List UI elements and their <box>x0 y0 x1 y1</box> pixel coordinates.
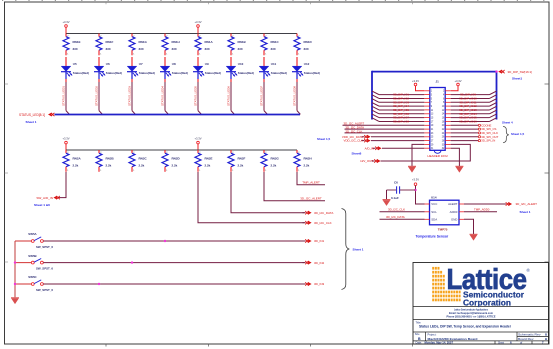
wire 3D_SPI_CLK (J1) <box>451 132 478 134</box>
power +3.3V P6 (J1 pin2) <box>454 79 461 86</box>
bus STATUS_LED[8:1] <box>55 114 301 116</box>
junction bus corner <box>495 70 497 72</box>
LED U11 Status(Red) <box>259 57 287 82</box>
wire switch common rail <box>14 241 16 297</box>
svg-text:SW5A: SW5A <box>28 232 37 236</box>
svg-text:U12: U12 <box>304 62 310 66</box>
svg-text:Sheet 1 &6: Sheet 1 &6 <box>34 203 50 207</box>
svg-text:Temperature Sensor: Temperature Sensor <box>416 235 449 239</box>
wire LED5 cathode down <box>197 82 199 111</box>
svg-text:GND: GND <box>451 217 457 221</box>
wire +3.3V to U14 VCC <box>416 186 425 204</box>
brace SPI group <box>503 126 509 143</box>
svg-text:U6: U6 <box>106 62 110 66</box>
svg-text:3D_I2C_ALERT: 3D_I2C_ALERT <box>516 202 538 206</box>
resistor RN2F 2.2k <box>228 150 246 172</box>
svg-text:SCL: SCL <box>431 210 437 214</box>
svg-text:+3.3V: +3.3V <box>454 79 461 83</box>
svg-text:2.2k: 2.2k <box>205 163 211 167</box>
wire 3D_DIP_IO16 (J1 pin 18) <box>451 120 490 122</box>
capacitor C6 0.1uF <box>387 181 416 200</box>
svg-text:3D_I2C_DATA: 3D_I2C_DATA <box>386 215 405 219</box>
svg-text:RN1D: RN1D <box>304 40 313 44</box>
power +3.3V P7 (U14) <box>412 178 419 186</box>
pin stubs J1 <box>424 91 450 151</box>
bus entry 3D_DIP_IO8 <box>372 118 379 122</box>
svg-text:RN2H: RN2H <box>304 157 312 161</box>
svg-text:+3.3V: +3.3V <box>194 136 201 140</box>
svg-text:SW_SPST_6: SW_SPST_6 <box>36 245 53 249</box>
wire +3.3V P2 to rail <box>197 27 199 33</box>
wire 3D_SPI_OUT (J1) <box>451 136 478 138</box>
ground (C6) <box>383 200 391 206</box>
bus 3D_DIP_SW right vertical <box>496 71 498 120</box>
bus entry 3D_DIP_IO10 <box>490 95 497 99</box>
wire LED8 cathode down <box>296 82 298 111</box>
svg-text:Status(Red): Status(Red) <box>139 71 155 75</box>
wire LED2 cathode down <box>98 82 100 111</box>
wire 3D_DIP_IO1 (J1 pin 3) <box>379 94 424 96</box>
title block date row <box>416 341 545 345</box>
wire switch SW5C to port 3D_IN3 <box>43 283 304 285</box>
wire U14 GND to ground <box>464 219 474 234</box>
svg-text:TMP_ADD0: TMP_ADD0 <box>474 208 490 212</box>
no-connect CDONE <box>478 124 480 126</box>
power +3.3V P5 (J1 pin1) <box>412 79 419 86</box>
wire C6 to ground <box>386 190 388 199</box>
svg-text:RN2F: RN2F <box>238 157 246 161</box>
bus entry 3D_DIP_IO9 <box>490 91 497 95</box>
svg-text:TMP75: TMP75 <box>438 228 448 232</box>
bus entry 3D_DIP_IO7 <box>372 114 379 118</box>
svg-text:330: 330 <box>205 47 210 51</box>
svg-text:STATUS_LED7: STATUS_LED7 <box>259 86 263 106</box>
svg-text:B: B <box>545 333 547 337</box>
svg-text:Sheet 1,5: Sheet 1,5 <box>317 137 331 141</box>
wire +3.3V rail group1 <box>66 33 297 35</box>
bus entry LED4 <box>165 111 168 115</box>
svg-text:RN1H: RN1H <box>172 40 180 44</box>
title block title row <box>416 320 512 328</box>
svg-text:RN2E: RN2E <box>205 157 213 161</box>
svg-text:U14: U14 <box>431 195 437 199</box>
bus entry 3D_DIP_IO4 <box>372 103 379 107</box>
svg-text:3D_I2C_DATA: 3D_I2C_DATA <box>314 211 333 215</box>
svg-text:Status(Red): Status(Red) <box>271 71 287 75</box>
svg-text:Sheet 1: Sheet 1 <box>353 247 364 251</box>
LED U9 Status(Red) <box>193 57 221 82</box>
wire 3D_DIP_IO2 (J1 pin 5) <box>379 97 424 99</box>
svg-text:3D_SPI_IN: 3D_SPI_IN <box>481 139 495 143</box>
svg-text:VDD_I2C_CLK: VDD_I2C_CLK <box>344 139 364 143</box>
LED U7 Status(Red) <box>127 57 155 82</box>
svg-text:330: 330 <box>73 47 78 51</box>
LED U8 Status(Red) <box>160 57 188 82</box>
bus entry 3D_DIP_IO5 <box>372 106 379 110</box>
bus entry 3D_DIP_IO6 <box>372 110 379 114</box>
wire 3D_I2C_DATA to U14 SDA <box>380 218 425 220</box>
power +3.3V P4 <box>194 136 201 144</box>
switch SW5C SW_SPST_6 <box>28 275 53 292</box>
svg-text:3D_DIP_IO16: 3D_DIP_IO16 <box>459 119 477 123</box>
svg-text:STATUS_LED[8:1]: STATUS_LED[8:1] <box>19 113 45 117</box>
bus entry LED3 <box>132 111 135 115</box>
svg-text:Status(Red): Status(Red) <box>172 71 188 75</box>
LED U5 Status(Red) <box>61 57 89 82</box>
title block contact info <box>447 307 496 318</box>
wire 3D_DIP_IO8 (J1 pin 17) <box>379 120 424 122</box>
wire +3.3V P4 to rail <box>197 144 199 150</box>
svg-text:SW_SPST_6: SW_SPST_6 <box>36 266 53 270</box>
svg-text:+3.3V: +3.3V <box>62 136 69 140</box>
svg-text:3D_I2C_CLK: 3D_I2C_CLK <box>388 208 405 212</box>
port SW_A/D_IN <box>53 196 57 200</box>
svg-text:3D_I2C_CLK: 3D_I2C_CLK <box>314 221 332 225</box>
power +3.3V P3 <box>62 136 69 144</box>
svg-text:Status(Red): Status(Red) <box>238 71 254 75</box>
svg-text:STATUS_LED4: STATUS_LED4 <box>160 86 164 106</box>
svg-text:Lattice Semiconductor Applicat: Lattice Semiconductor Applications <box>454 307 488 311</box>
wire 3D_DIP_IO11 (J1 pin 8) <box>451 101 490 103</box>
bus entry LED7 <box>264 111 267 115</box>
svg-text:Board Rev: Board Rev <box>518 337 534 341</box>
wire 3D_DIP_IO9 (J1 pin 4) <box>451 94 490 96</box>
wire 3D_I2C_DATA to J1 <box>345 128 425 130</box>
svg-text:STATUS_LED2: STATUS_LED2 <box>94 86 98 106</box>
bus 3D_DIP_SW left vertical <box>371 71 373 120</box>
wire +3.3V to J1 pin1 <box>416 86 425 91</box>
resistor RN1E 330 <box>63 34 81 56</box>
svg-text:J1: J1 <box>436 80 440 84</box>
svg-text:3D_IN1: 3D_IN1 <box>314 239 325 243</box>
svg-text:RN1F: RN1F <box>106 40 114 44</box>
bus entry 3D_DIP_IO11 <box>490 99 497 103</box>
wire +3.3V to J1 pin2 <box>451 86 458 91</box>
port A/D_IN <box>375 147 378 150</box>
resistor RN1A 330 <box>195 34 214 56</box>
wire RN2E to 3D_I2C_CLK port <box>198 172 305 223</box>
svg-text:Sheet 1,5: Sheet 1,5 <box>511 132 525 136</box>
svg-text:Phone (503) 268-8001 -or- 1(80: Phone (503) 268-8001 -or- 1(800) LATTICE <box>447 314 496 318</box>
svg-text:0.1uF: 0.1uF <box>391 196 399 200</box>
svg-text:RN1E: RN1E <box>73 40 81 44</box>
wire J1 pin32 to ground <box>451 148 460 166</box>
svg-text:RN2C: RN2C <box>139 157 148 161</box>
svg-text:U9: U9 <box>205 62 209 66</box>
svg-text:Project:: Project: <box>428 332 437 336</box>
svg-text:Status(Red): Status(Red) <box>205 71 221 75</box>
wire LED3 cathode down <box>131 82 133 111</box>
wire RN2G to 3D_I2C_ALERT <box>264 172 325 201</box>
svg-text:RN1G: RN1G <box>139 40 148 44</box>
wire rail to switch SW5B <box>15 262 31 264</box>
ground (J1 pin32) <box>455 166 463 172</box>
svg-text:ADD0: ADD0 <box>450 210 458 214</box>
svg-text:VCC: VCC <box>431 202 437 206</box>
wire U14 ADD0 <box>464 211 497 213</box>
ground (U14) <box>470 234 478 240</box>
bus entry 3D_DIP_IO1 <box>372 91 379 95</box>
svg-text:2.2k: 2.2k <box>238 163 244 167</box>
resistor RN2B 2.2k <box>96 150 115 172</box>
resistor RN1G 330 <box>129 34 148 56</box>
wire LED1 cathode down <box>65 82 67 111</box>
svg-text:Schematic Rev: Schematic Rev <box>518 333 541 337</box>
wire 3D_DIP_IO3 (J1 pin 7) <box>379 101 424 103</box>
resistor RN2H 2.2k <box>294 150 312 172</box>
svg-text:+3.3V: +3.3V <box>412 178 419 182</box>
svg-text:U7: U7 <box>139 62 143 66</box>
bus entry LED6 <box>231 111 234 115</box>
wire +3.3V P1 to rail <box>65 27 67 33</box>
wire switch SW5B to port 3D_IN2 <box>43 262 304 264</box>
svg-text:STATUS_LED6: STATUS_LED6 <box>226 86 230 106</box>
LED U12 Status(Red) <box>292 57 320 82</box>
no-connect 3D_SPI_CS <box>478 128 480 130</box>
svg-text:STATUS_LED1: STATUS_LED1 <box>61 86 65 106</box>
svg-text:RN2G: RN2G <box>271 157 280 161</box>
power +3.3V P1 <box>62 20 69 28</box>
svg-text:SW_SPST_6: SW_SPST_6 <box>36 288 53 292</box>
svg-text:Sheet 1: Sheet 1 <box>26 120 37 124</box>
bus entry 3D_DIP_IO12 <box>490 103 497 107</box>
junction rail SW5B <box>14 261 16 263</box>
Lattice logo dot grid <box>432 267 460 301</box>
port VDD_I2C_CLK <box>364 139 367 142</box>
svg-text:SW5B: SW5B <box>28 254 36 258</box>
bus 3D_DIP_SW top <box>372 71 497 73</box>
wire +3.3V rail group2 <box>66 149 297 151</box>
svg-text:+3.3V: +3.3V <box>62 20 69 24</box>
bus entry 3D_DIP_IO13 <box>490 106 497 110</box>
svg-text:RN2D: RN2D <box>172 157 181 161</box>
svg-text:330: 330 <box>172 47 177 51</box>
connector J1 body HEADER 16X2 <box>430 80 445 154</box>
svg-text:Sheet 1: Sheet 1 <box>520 210 531 214</box>
svg-text:RN2B: RN2B <box>106 157 115 161</box>
svg-text:SW_A/D_IN: SW_A/D_IN <box>36 196 53 200</box>
resistor RN2D 2.2k <box>162 150 181 172</box>
svg-text:2.2k: 2.2k <box>271 163 277 167</box>
svg-text:RN1C: RN1C <box>271 40 280 44</box>
svg-text:+3.3V: +3.3V <box>412 79 419 83</box>
port 3D_IN2 <box>305 261 308 264</box>
svg-text:3D_I2C_CLK: 3D_I2C_CLK <box>345 129 362 133</box>
svg-text:3D_DIP_IO8: 3D_DIP_IO8 <box>393 119 409 123</box>
wire U14 ALERT to port <box>464 203 505 205</box>
wire 3D_DIP_IO5 (J1 pin 11) <box>379 109 424 111</box>
svg-text:2.2k: 2.2k <box>139 163 145 167</box>
title block size/project row <box>415 332 547 341</box>
wire 3D_SPI_CS (J1) <box>451 128 478 130</box>
wire LED7 cathode down <box>263 82 265 111</box>
LED U6 Status(Red) <box>94 57 122 82</box>
svg-text:2.2k: 2.2k <box>106 163 112 167</box>
wire +3.3V P3 to rail <box>65 144 67 150</box>
svg-text:Status LEDs, DIP SW, Temp Sens: Status LEDs, DIP SW, Temp Sensor, and Ex… <box>419 325 512 329</box>
wire J1 pin29 to ground <box>412 144 424 166</box>
wire RN2A to SW_A/D_IN port <box>58 172 67 198</box>
bus entry LED2 <box>99 111 102 115</box>
bus entry 3D_DIP_IO15 <box>490 114 497 118</box>
wire 3D_DIP_IO10 (J1 pin 6) <box>451 97 490 99</box>
wire LED6 cathode down <box>230 82 232 111</box>
svg-text:Sheet 4: Sheet 4 <box>502 121 513 125</box>
bus entry LED1 <box>66 111 69 115</box>
resistor RN2A 2.2k <box>63 150 82 172</box>
wire 3D_DIP_IO14 (J1 pin 14) <box>451 113 490 115</box>
resistor RN1H 330 <box>162 34 180 56</box>
svg-text:Email: techsupport@latticesemi: Email: techsupport@latticesemi.com <box>449 311 494 315</box>
bus entry 3D_DIP_IO2 <box>372 95 379 99</box>
wire rail to switch SW5C <box>15 283 31 285</box>
port 12V_OUT <box>374 159 377 162</box>
junction at column 165 <box>164 240 166 242</box>
resistor RN1F 330 <box>96 34 114 56</box>
wire 3D_DIP_IO6 (J1 pin 13) <box>379 113 424 115</box>
bus entry LED5 <box>198 111 201 115</box>
port 3D_IN1 <box>305 239 308 242</box>
svg-text:TMP_ALERT: TMP_ALERT <box>302 181 320 185</box>
wire CDONE (J1) <box>451 124 478 126</box>
bus entry 3D_DIP_IO14 <box>490 110 497 114</box>
wire 3D_I2C_ALERT to J1 <box>343 124 425 126</box>
svg-text:330: 330 <box>106 47 111 51</box>
wire switch SW5A to port 3D_IN1 <box>43 240 304 242</box>
svg-text:3D_DIP_SW[16:1]: 3D_DIP_SW[16:1] <box>508 70 533 74</box>
junction rail SW5C <box>14 283 16 285</box>
wire VDD_I2C_CLK to J1 <box>371 140 424 142</box>
no-connect 3D_SPI_CLK <box>478 132 480 134</box>
wire 3D_DIP_IO4 (J1 pin 9) <box>379 105 424 107</box>
wire 3D_SPI_IN (J1) <box>451 140 478 142</box>
switch SW5B SW_SPST_6 <box>28 254 53 271</box>
power +3.3V P2 <box>194 20 201 28</box>
wire RN2F to 3D_I2C_DATA port <box>231 172 305 213</box>
IC U14 TMP75 temperature sensor <box>425 195 465 231</box>
resistor RN1B 330 <box>228 34 247 56</box>
resistor RN2C 2.2k <box>129 150 148 172</box>
svg-text:SDA: SDA <box>431 217 437 221</box>
switch SW5A SW_SPST_6 <box>28 232 53 249</box>
svg-text:RN1B: RN1B <box>238 40 247 44</box>
svg-text:SW5C: SW5C <box>28 275 37 279</box>
wire rail to switch SW5A <box>15 240 31 242</box>
wire RN2H to TMP_ALERT <box>297 172 325 185</box>
brace sheet1 group <box>342 209 350 290</box>
svg-text:330: 330 <box>271 47 276 51</box>
port 3D_I2C_DATA <box>305 211 308 214</box>
svg-text:RN2A: RN2A <box>73 157 82 161</box>
svg-text:STATUS_LED5: STATUS_LED5 <box>193 86 197 106</box>
svg-text:+3.3V: +3.3V <box>194 20 201 24</box>
no-connect 3D_SPI_IN <box>478 139 480 141</box>
svg-text:Sheet6: Sheet6 <box>352 152 362 156</box>
svg-text:STATUS_LED3: STATUS_LED3 <box>127 86 131 106</box>
svg-text:Status(Red): Status(Red) <box>73 71 89 75</box>
svg-text:3D_I2C_ALERT: 3D_I2C_ALERT <box>300 197 322 201</box>
svg-text:of: of <box>520 341 522 345</box>
wire 3D_DIP_IO15 (J1 pin 16) <box>451 117 490 119</box>
svg-text:B: B <box>418 337 421 341</box>
svg-text:B: B <box>545 337 547 341</box>
LED U10 Status(Red) <box>226 57 254 82</box>
svg-text:Date:: Date: <box>416 341 423 345</box>
wire J1 pin30 to ground and 12V_OUT <box>381 144 471 161</box>
bus entry 3D_DIP_IO3 <box>372 99 379 103</box>
svg-text:2.2k: 2.2k <box>73 163 79 167</box>
junction C6/+3.3V <box>414 189 416 191</box>
ground (J1 pin29) <box>408 166 416 172</box>
svg-text:Monday, May 14, 2007: Monday, May 14, 2007 <box>425 341 454 345</box>
svg-text:C6: C6 <box>394 181 398 185</box>
svg-text:2.2k: 2.2k <box>172 163 178 167</box>
junction at column 99 <box>98 283 100 285</box>
resistor RN2E 2.2k <box>195 150 213 172</box>
port VDD_I2C_DATA <box>364 135 367 138</box>
svg-text:330: 330 <box>139 47 144 51</box>
svg-text:Size: Size <box>415 333 420 336</box>
wire A/D_IN to J1 <box>382 147 424 149</box>
wire 3D_DIP_IO13 (J1 pin 12) <box>451 109 490 111</box>
port 3D_DIP_SW[16:1] <box>498 70 502 74</box>
no-connect 3D_SPI_OUT <box>478 136 480 138</box>
svg-text:Corporation: Corporation <box>463 299 511 308</box>
svg-text:3D_IN3: 3D_IN3 <box>314 282 325 286</box>
wire VDD_I2C_DATA to J1 <box>371 136 424 138</box>
svg-text:ALERT: ALERT <box>448 202 457 206</box>
wire LED4 cathode down <box>164 82 166 111</box>
wire 3D_I2C_CLK to U14 SCL <box>380 211 425 213</box>
svg-text:Status(Red): Status(Red) <box>106 71 122 75</box>
svg-text:U8: U8 <box>172 62 176 66</box>
svg-text:Sheet1: Sheet1 <box>512 77 522 81</box>
svg-text:330: 330 <box>238 47 243 51</box>
port 3D_IN3 <box>305 282 308 285</box>
resistor RN1C 330 <box>261 34 280 56</box>
wire 3D_I2C_CLK to J1 <box>345 132 425 134</box>
svg-text:U5: U5 <box>73 62 77 66</box>
svg-text:U10: U10 <box>238 62 244 66</box>
port 3D_I2C_ALERT <box>506 202 509 205</box>
svg-text:HEADER 16X2: HEADER 16X2 <box>427 154 448 158</box>
svg-text:U11: U11 <box>271 62 277 66</box>
svg-text:Sheet: Sheet <box>498 342 504 345</box>
svg-text:12V_OUT: 12V_OUT <box>360 159 373 163</box>
bus entry 3D_DIP_IO16 <box>490 118 497 122</box>
svg-text:RN1A: RN1A <box>205 40 214 44</box>
svg-text:STATUS_LED8: STATUS_LED8 <box>292 86 296 106</box>
svg-text:A/D_IN: A/D_IN <box>365 146 374 150</box>
port 3D_I2C_CLK <box>305 221 308 224</box>
svg-text:Status(Red): Status(Red) <box>304 71 320 75</box>
svg-text:330: 330 <box>304 47 309 51</box>
resistor RN2G 2.2k <box>261 150 280 172</box>
title block frame <box>413 263 549 345</box>
svg-text:2.2k: 2.2k <box>304 163 310 167</box>
junction at column 132 <box>131 261 133 263</box>
ground (switch rail) <box>11 298 19 304</box>
resistor RN1D 330 <box>294 34 313 56</box>
wire 3D_DIP_IO12 (J1 pin 10) <box>451 105 490 107</box>
wire 3D_DIP_IO7 (J1 pin 15) <box>379 117 424 119</box>
bus entry LED8 <box>297 111 300 115</box>
port STATUS_LED[8:1] <box>48 113 52 117</box>
svg-text:3D_IN2: 3D_IN2 <box>314 261 325 265</box>
